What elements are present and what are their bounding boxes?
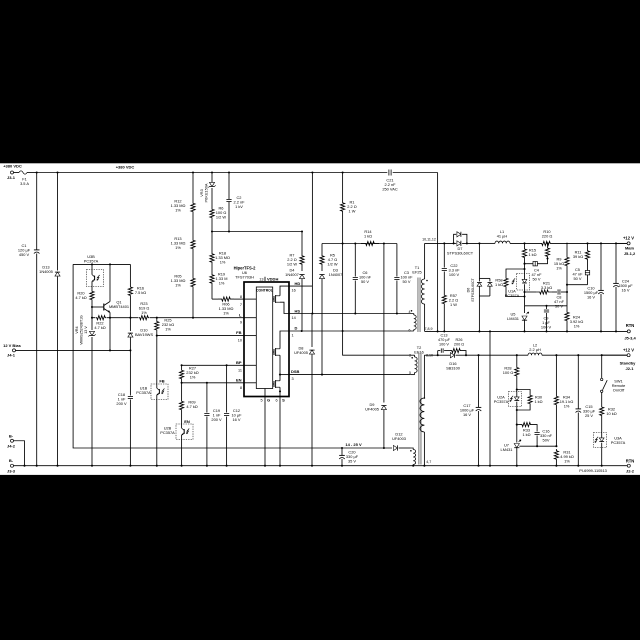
- shunt reg U5 LM431: [507, 306, 529, 333]
- svg-text:5: 5: [409, 371, 411, 375]
- mosfet high-side: [273, 286, 289, 313]
- resistor R9 15 kOhm: [554, 243, 588, 292]
- resistor R11 39 kOhm: [573, 243, 590, 261]
- svg-text:6: 6: [275, 399, 277, 403]
- resistor R7 2.2 Ohm: [287, 232, 304, 267]
- resistor R09 4.7 kOhm: [180, 383, 198, 412]
- resistor R21 3.3 kOhm: [523, 281, 557, 306]
- wire clamp node: [211, 230, 303, 232]
- svg-text:6: 6: [409, 329, 411, 333]
- wire G pin to ground: [264, 402, 266, 467]
- capacitor C15 330 uF 25 V: [576, 355, 596, 467]
- terminal +12V Main J5-1,2: [616, 236, 636, 257]
- pin 13 VDDH label: [259, 276, 278, 281]
- svg-text:+380 VDC: +380 VDC: [116, 165, 135, 170]
- resistor R5 4.7 Ohm: [320, 244, 338, 267]
- wire HS: [289, 308, 414, 320]
- svg-text:D: D: [295, 326, 298, 331]
- resistor R14 1 kOhm: [361, 229, 379, 246]
- wire ref node: [519, 445, 557, 447]
- resistor R15 1 kOhm: [522, 243, 536, 264]
- svg-text:EN: EN: [236, 377, 242, 382]
- resistor R31 4.99 kOhm: [554, 449, 574, 467]
- svg-text:VMMSZ5243BT1G: VMMSZ5243BT1G: [80, 315, 84, 345]
- resistor R23 619 Ohm: [138, 301, 150, 320]
- capacitor C12 10 uF 16 V: [224, 365, 242, 466]
- capacitor C20 330 uF 35 V: [339, 448, 359, 467]
- resistor R24 3.92 kOhm: [565, 292, 583, 332]
- wire FB run: [157, 335, 244, 337]
- resistor R32 10 kOhm: [600, 393, 617, 418]
- pin labels left: [236, 295, 242, 390]
- op-amp U6 HiperTFS-2 TFS7703H outline: [234, 266, 289, 397]
- T2 standby secondary winding: [420, 354, 438, 467]
- capacitor C2 2.2 nF 1 kV: [226, 173, 245, 232]
- svg-text:9: 9: [240, 320, 242, 324]
- svg-text:STPS30L60CT: STPS30L60CT: [471, 277, 475, 301]
- optocoupler U1A PC357A with R58: [495, 264, 530, 298]
- capacitor C18 1 nF 200 V: [116, 350, 133, 466]
- svg-text:13: 13: [259, 277, 263, 281]
- capacitor C3 100 nF 50 V: [394, 244, 413, 314]
- svg-text:D6: D6: [467, 288, 471, 293]
- capacitor C6 100 nF 50 V: [353, 244, 372, 314]
- capacitor C8 47 nF 50 V: [554, 289, 568, 308]
- capacitor C16 330 nF 50V: [535, 429, 553, 448]
- optocoupler U1B PC357A feedback: [136, 336, 168, 467]
- resistor R12 1.33 MOhm: [171, 173, 196, 217]
- shunt reg U7 LM431: [501, 425, 521, 467]
- svg-text:8: 8: [240, 386, 242, 390]
- svg-text:+12 V: +12 V: [623, 236, 634, 241]
- resistor R20 4.7 kOhm: [75, 290, 94, 318]
- resistor R22 4.7 kOhm: [94, 315, 107, 330]
- svg-text:G: G: [267, 398, 270, 403]
- diode D12 UF4003: [392, 432, 410, 451]
- wire DSB: [289, 369, 323, 381]
- svg-text:+380 VDC: +380 VDC: [3, 164, 22, 169]
- resistor R13 1.33 MOhm: [171, 216, 196, 253]
- svg-text:J4-2: J4-2: [7, 443, 16, 448]
- wire S pin to ground: [279, 402, 281, 467]
- resistor R9 15 kOhm upper: [545, 242, 549, 259]
- mosfet mid: [273, 331, 289, 381]
- capacitor C17 1000 uF 16 V: [460, 355, 481, 467]
- svg-text:Standby: Standby: [620, 361, 637, 366]
- optocoupler U2B PC357A enable: [160, 412, 193, 467]
- wire HD: [289, 281, 312, 293]
- svg-text:VR4: VR4: [75, 326, 79, 333]
- diode D8 UF4005: [294, 314, 315, 467]
- capacitor C22 3.3 nF 100 V: [442, 243, 460, 293]
- svg-text:FB: FB: [159, 379, 164, 384]
- mosfet low-side: [273, 374, 289, 397]
- optocoupler U3B PC357A: [73, 254, 130, 290]
- svg-text:TFS7703H: TFS7703H: [235, 274, 254, 279]
- svg-text:J4-1: J4-1: [7, 353, 16, 358]
- wire D: [289, 326, 414, 338]
- control block: [256, 287, 273, 389]
- svg-text:1: 1: [292, 334, 294, 338]
- svg-text:EN: EN: [184, 419, 190, 424]
- drawing number: [579, 468, 607, 473]
- diode D10 BAV19WS: [128, 298, 154, 351]
- svg-text:R141 kΩ: R141 kΩ: [364, 229, 372, 239]
- resistor R1 2.2 Ohm: [341, 173, 411, 356]
- T1 primary winding: [409, 310, 417, 333]
- svg-text:BP: BP: [236, 360, 242, 365]
- svg-text:R572.2 Ω1 W: R572.2 Ω1 W: [449, 293, 458, 307]
- svg-text:DSB: DSB: [291, 369, 300, 374]
- +380 VDC rail label: [116, 165, 135, 170]
- svg-text:4: 4: [409, 310, 411, 314]
- svg-text:J2-2: J2-2: [626, 469, 635, 474]
- capacitor C19 1 nF 200 V: [204, 383, 222, 467]
- wire standby rail 2: [542, 354, 627, 356]
- resistor R25 232 kOhm: [155, 318, 175, 337]
- svg-text:Main: Main: [625, 246, 635, 251]
- svg-text:8: 8: [240, 295, 242, 299]
- wire DSB to T2 pin5: [322, 374, 411, 376]
- svg-text:FB: FB: [236, 330, 241, 335]
- resistor R28 100 Ohm: [503, 355, 519, 389]
- switch SW1 Remote On/Off: [601, 355, 626, 392]
- svg-text:7: 7: [240, 303, 242, 307]
- svg-text:7,8,9: 7,8,9: [425, 327, 433, 331]
- wire control to pins: [244, 299, 265, 396]
- svg-text:+12 V: +12 V: [623, 348, 634, 353]
- wire opto chain: [516, 410, 518, 426]
- svg-text:CONTROL: CONTROL: [256, 289, 273, 293]
- svg-text:13 V: 13 V: [84, 326, 88, 334]
- inductor L2 2.2 uH: [528, 343, 542, 356]
- diode D3 1N4007: [319, 266, 342, 375]
- transformer T2 EE16: [414, 345, 424, 465]
- bias terminal J4-1 12 V Bias: [3, 343, 131, 358]
- svg-text:12 V Bias: 12 V Bias: [3, 343, 22, 348]
- wire secondary rectifier node: [425, 242, 454, 244]
- svg-text:RTN: RTN: [626, 323, 635, 328]
- wire BP run: [182, 364, 244, 366]
- diode D16 SB3100: [438, 353, 467, 371]
- wire bottom return rail: [12, 465, 627, 467]
- capacitor C21 2.2 nF 250 VAC: [382, 169, 397, 191]
- svg-text:16: 16: [292, 289, 296, 293]
- fuse F1 3.5 A: [14, 171, 37, 186]
- wire EN run: [182, 382, 244, 384]
- transformer T1 EF25: [412, 265, 421, 332]
- diode D6 STPS30L60CT: [467, 242, 493, 332]
- svg-text:HD: HD: [295, 281, 301, 286]
- svg-text:B-: B-: [9, 458, 14, 463]
- diode D4 1N4007: [285, 266, 304, 331]
- svg-text:B-: B-: [9, 433, 14, 438]
- terminal RTN J5-3,4: [624, 323, 636, 341]
- diode D13 1N4005: [39, 173, 60, 466]
- inductor L1 41 uH: [479, 229, 536, 244]
- optocoupler U2A PC357A with R30: [494, 388, 543, 411]
- svg-text:3: 3: [292, 377, 294, 381]
- svg-text:R151 kΩ: R151 kΩ: [528, 248, 536, 258]
- svg-text:RTN: RTN: [626, 458, 635, 463]
- capacitor C1 120 uF 450 V: [18, 173, 40, 466]
- wire snubber node: [322, 242, 397, 244]
- wire +380V rail: [36, 171, 438, 173]
- zener VR4 VMMSZ5243B 13 V: [75, 315, 96, 466]
- svg-text:3: 3: [409, 354, 411, 358]
- T2 bias secondary winding: [410, 448, 416, 467]
- transistor Q1 MMBT4401: [92, 264, 129, 317]
- wire Q1 emitter drop: [109, 318, 111, 351]
- svg-text:5: 5: [260, 399, 262, 403]
- resistor R10 220 Ohm: [536, 229, 556, 246]
- diode D9 UF4005: [365, 244, 386, 449]
- terminal +12V Standby J2-1: [602, 348, 636, 372]
- terminal J4-2 B-: [7, 433, 25, 465]
- wire fb node: [525, 305, 568, 307]
- wire 14-25V run: [73, 264, 392, 449]
- svg-text:PI-6999-110513: PI-6999-110513: [579, 468, 607, 473]
- wire standby node: [437, 351, 439, 357]
- svg-text:VDDH: VDDH: [267, 276, 278, 281]
- pin labels bottom: [260, 397, 285, 403]
- svg-text:R581 kΩ: R581 kΩ: [495, 278, 503, 288]
- resistor R05 1.33 MOhm: [171, 253, 196, 319]
- svg-text:14: 14: [292, 316, 296, 320]
- capacitor C4 47 nF 50 V: [525, 259, 548, 282]
- svg-text:14 - 25 V: 14 - 25 V: [345, 442, 362, 447]
- wire Y-cap drop: [437, 173, 439, 333]
- svg-text:10,11,12: 10,11,12: [422, 238, 436, 242]
- T2 primary winding: [409, 354, 417, 376]
- optocoupler U3A PC357A: [594, 418, 626, 467]
- svg-text:P6KE150A: P6KE150A: [204, 183, 209, 202]
- capacitor C9 1 uF 100 V: [541, 306, 552, 333]
- svg-text:J3-3: J3-3: [7, 468, 16, 473]
- resistor R19 1.33 MOhm: [210, 265, 228, 299]
- wire RTN to output gnd: [489, 331, 491, 466]
- svg-text:J3-1: J3-1: [7, 175, 16, 180]
- svg-text:J5-1,2: J5-1,2: [624, 251, 636, 256]
- wire standby rail: [466, 354, 528, 356]
- resistor R06 1.33 MOhm: [212, 297, 244, 316]
- svg-text:R301 kΩ: R301 kΩ: [534, 395, 542, 405]
- resistor R26 200 Ohm: [450, 338, 466, 355]
- capacitor C5 47 nF 50 V: [573, 262, 590, 285]
- T1 secondary winding: [421, 238, 436, 332]
- wire L pin run: [91, 317, 244, 319]
- wire main RTN: [425, 330, 628, 332]
- wire main rail to terminal: [556, 242, 627, 244]
- wire HD drop: [311, 173, 313, 314]
- svg-text:11: 11: [238, 369, 242, 373]
- svg-text:HS: HS: [295, 308, 301, 313]
- svg-text:J2-1: J2-1: [625, 366, 634, 371]
- resistor R27 232 kOhm: [180, 364, 199, 384]
- capacitor C10 1500 uF 16 V: [584, 243, 604, 332]
- resistor R34 19.1 kOhm: [554, 355, 573, 446]
- terminal J3-3 B-: [7, 458, 16, 473]
- svg-text:J5-3,4: J5-3,4: [624, 336, 636, 341]
- diode D7 STPS30L60CT: [447, 232, 479, 256]
- input terminal J3-1 +380 VDC: [3, 164, 22, 181]
- svg-text:10: 10: [238, 339, 242, 343]
- resistor R16 7.5 kOhm: [128, 264, 146, 297]
- svg-text:4,7: 4,7: [426, 460, 431, 464]
- zener VR3 P6KE150A: [199, 173, 216, 206]
- svg-text:S: S: [282, 398, 285, 403]
- resistor R33 1 kOhm: [517, 423, 537, 438]
- terminal RTN J2-2: [626, 458, 635, 473]
- capacitor C13 470 uF 100 V: [438, 334, 451, 353]
- svg-text:R331 kΩ: R331 kΩ: [522, 428, 530, 438]
- capacitor C24 1500 uF 16 V: [613, 243, 633, 332]
- resistor R57 2.2 Ohm: [442, 293, 458, 332]
- resistor R6 100 Ohm: [210, 205, 227, 232]
- resistor R18 1.33 MOhm: [210, 232, 230, 266]
